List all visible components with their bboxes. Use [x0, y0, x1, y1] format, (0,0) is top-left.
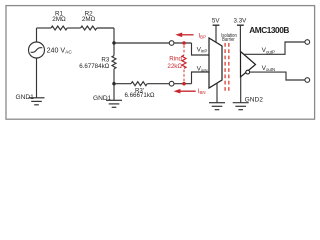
- svg-text:GND1: GND1: [16, 94, 35, 101]
- resistor R1: [51, 26, 67, 30]
- svg-text:22kΩ: 22kΩ: [167, 63, 182, 70]
- resistor R3': [131, 82, 147, 86]
- node red junction top: [182, 41, 186, 45]
- wire top rail: [37, 28, 115, 43]
- node red junction bottom: [182, 82, 186, 86]
- svg-text:GND1: GND1: [93, 95, 112, 102]
- svg-text:3.3V: 3.3V: [234, 18, 248, 25]
- svg-text:Rind: Rind: [169, 55, 182, 62]
- terminal VoutP (open circle): [305, 40, 310, 45]
- wire VoutN: [250, 72, 306, 80]
- voltage source V1 240VAC: [29, 28, 45, 98]
- node terminal (open circle, bottom input): [169, 81, 174, 86]
- ground GND2 (under output stage): [233, 77, 249, 110]
- svg-text:GND2: GND2: [245, 97, 264, 104]
- ground GND1 (under source): [29, 98, 45, 105]
- resistor Rind 22kΩ (red, dashed leads): [183, 45, 185, 82]
- node junction bottom of R3: [112, 82, 115, 85]
- svg-text:5V: 5V: [212, 18, 220, 25]
- ground (under input stage): [209, 83, 225, 110]
- bias current arrow IBN: [174, 89, 196, 94]
- terminal VoutN (open circle): [305, 78, 310, 83]
- node terminal (open circle, top input): [169, 41, 174, 46]
- svg-text:Barrier: Barrier: [222, 37, 235, 44]
- resistor R2: [81, 26, 97, 30]
- ground GND1 (under R3): [106, 84, 122, 108]
- svg-text:6.67784kΩ: 6.67784kΩ: [79, 63, 109, 70]
- op-amp U1 input stage (trapezoid): [209, 38, 222, 88]
- op-amp U1 output stage (triangle): [241, 52, 256, 78]
- bias current arrow IBP: [175, 33, 193, 38]
- supply 5V: [213, 25, 220, 42]
- svg-text:2MΩ: 2MΩ: [52, 16, 66, 23]
- inverting output bubble: [246, 70, 250, 74]
- wire VoutP: [244, 42, 305, 54]
- svg-text:2MΩ: 2MΩ: [82, 16, 96, 23]
- wire VinP rail: [114, 43, 209, 55]
- resistor R3: [112, 43, 116, 84]
- isolation barrier (red dashes): [225, 43, 229, 92]
- node junction top of R3: [112, 41, 115, 44]
- svg-text:6.66671kΩ: 6.66671kΩ: [124, 92, 154, 99]
- svg-text:AMC1300B: AMC1300B: [249, 25, 289, 35]
- wire VinN rail: [114, 72, 209, 84]
- supply 3.3V: [237, 25, 244, 51]
